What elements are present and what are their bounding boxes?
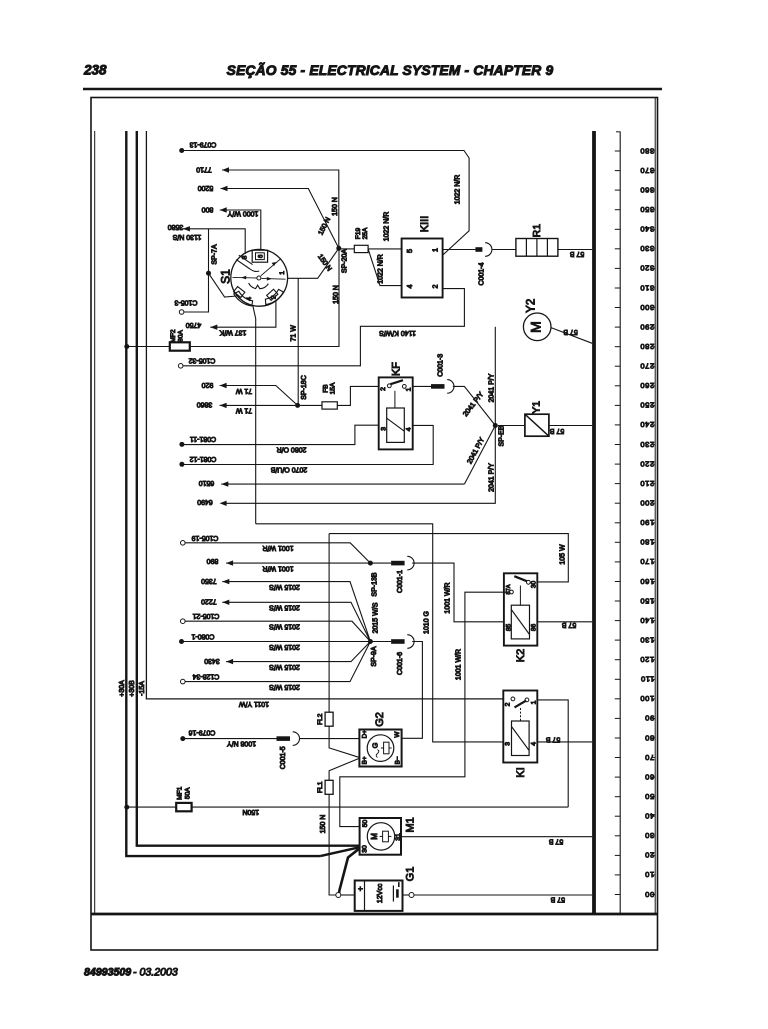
svg-text:1011 Y/W: 1011 Y/W [239, 700, 269, 707]
svg-text:3580: 3580 [168, 223, 184, 230]
fuse F19 25A [341, 248, 354, 250]
wire F19 to KIII pin 4 (1022 N/R) [368, 249, 402, 286]
connector C079-16 node [180, 736, 185, 741]
connector C081-11 node [179, 442, 184, 447]
svg-text:1001 W/R: 1001 W/R [262, 565, 293, 572]
svg-text:SP-9A: SP-9A [371, 646, 378, 667]
svg-text:2015 W/S: 2015 W/S [269, 683, 300, 690]
svg-text:C081-12: C081-12 [189, 455, 216, 462]
wire KIII pin 1 to C001-4 [443, 249, 476, 251]
svg-text:1008 N/Y: 1008 N/Y [227, 740, 257, 747]
starter motor M1 [360, 818, 403, 855]
svg-text:Y2: Y2 [525, 299, 537, 313]
svg-text:105 W: 105 W [560, 544, 567, 565]
svg-text:230: 230 [640, 440, 654, 449]
svg-text:100: 100 [640, 694, 654, 703]
battery − terminal [403, 894, 410, 896]
svg-text:86: 86 [531, 624, 538, 632]
svg-text:150: 150 [640, 596, 654, 605]
svg-text:- 03.2003: - 03.2003 [133, 967, 178, 979]
connector C105-21 [181, 619, 186, 624]
svg-text:920: 920 [202, 381, 214, 388]
svg-text:C128-34: C128-34 [192, 673, 219, 680]
fuse MF1 50A [176, 803, 191, 811]
svg-text:57 B: 57 B [545, 735, 560, 742]
wire S1 terminal 1 to SP-20A (150 N) [288, 248, 339, 278]
splice SP-20A [336, 246, 341, 251]
svg-text:220: 220 [640, 459, 654, 468]
wire K2 pin 87A to M1 pin 50 (1001 W/R) [340, 592, 511, 826]
svg-text:-15A: -15A [139, 681, 146, 696]
wire Y1 to ground bus (57 B) [549, 425, 592, 427]
svg-text:40: 40 [645, 812, 655, 821]
connector C001-1 [391, 561, 405, 566]
svg-text:FB: FB [322, 384, 329, 393]
wire KI pin 4 to ground bus (57 B) [537, 741, 592, 743]
wire SP-EB diagonal to 6510 line (2041 P/Y) [464, 426, 495, 485]
svg-text:G: G [370, 742, 379, 748]
svg-text:71 W: 71 W [235, 407, 252, 414]
svg-text:3860: 3860 [197, 401, 213, 408]
svg-text:80A: 80A [178, 330, 185, 342]
svg-text:50A: 50A [185, 787, 192, 799]
svg-text:G1: G1 [404, 867, 416, 882]
svg-text:2015 W/S: 2015 W/S [269, 643, 300, 650]
svg-text:KF: KF [390, 362, 402, 376]
wire SP-EB to Y1 [498, 425, 525, 427]
wire C105-19 to SP-13B (1001 W/R) [185, 543, 370, 563]
wire C079-16 to C001-5 (1008 N/Y) [183, 738, 277, 740]
svg-text:2: 2 [270, 295, 277, 299]
svg-text:2015 W/S: 2015 W/S [269, 604, 300, 611]
svg-text:6: 6 [257, 254, 264, 258]
svg-text:1001 W/R: 1001 W/R [445, 582, 452, 613]
connector C001-6 [391, 639, 405, 644]
svg-text:2080 O/R: 2080 O/R [277, 446, 307, 453]
wire 3580 to S1 terminal 3 [183, 229, 245, 254]
bus -15A wire 1011 Y/W to KI pin 2 [146, 131, 503, 699]
svg-text:C001-1: C001-1 [397, 570, 404, 593]
svg-text:57 B: 57 B [549, 427, 564, 434]
svg-text:240: 240 [640, 420, 654, 429]
left margin line [94, 131, 96, 914]
wire 137 W/K / 1010 G from S1 terminal 4 to KI pin 3 [256, 524, 504, 742]
svg-text:330: 330 [640, 244, 654, 253]
svg-text:2070 O/U/B: 2070 O/U/B [270, 466, 307, 473]
svg-text:2041 P/Y: 2041 P/Y [489, 373, 496, 402]
wire SP-7A to C105-3 [184, 273, 209, 312]
battery + terminal [336, 893, 341, 898]
svg-text:1001 W/R: 1001 W/R [456, 649, 463, 680]
svg-text:1: 1 [530, 700, 537, 704]
svg-text:57 B: 57 B [550, 896, 565, 903]
svg-text:C105-3: C105-3 [174, 298, 197, 305]
wire FL1 to battery + (150 N) [329, 794, 336, 895]
svg-text:3: 3 [241, 255, 248, 259]
svg-text:110: 110 [640, 675, 654, 684]
svg-text:120: 120 [640, 655, 654, 664]
svg-text:B+: B+ [362, 756, 369, 764]
svg-text:W: W [394, 731, 401, 738]
header rule [83, 88, 662, 91]
svg-text:1001 W/R: 1001 W/R [262, 544, 293, 551]
svg-text:C081-11: C081-11 [190, 435, 216, 442]
terminal number column inner line [654, 98, 656, 914]
splice SP-7A [208, 229, 210, 273]
wire 2080 O/R to KF pin 3 [182, 425, 379, 444]
wire SP-EB down to 6490 line (2041 P/Y) [221, 426, 495, 504]
svg-text:71 W: 71 W [291, 325, 298, 342]
wire SP-9A to C001-6 [373, 641, 392, 643]
wire 7350 to SP-9A (2015 W/S) [222, 582, 370, 642]
svg-text:C001-4: C001-4 [479, 262, 486, 285]
svg-text:7710: 7710 [196, 166, 212, 173]
connector C105-3 [179, 310, 184, 315]
svg-text:15A: 15A [330, 382, 337, 394]
wire C128-34 to SP-9A (2015 W/S) [185, 642, 370, 682]
connector C001-5 [277, 736, 291, 741]
svg-text:2015 W/S: 2015 W/S [372, 602, 379, 633]
svg-text:57 B: 57 B [569, 250, 584, 257]
svg-text:SP-13B: SP-13B [371, 572, 378, 596]
svg-text:SP-20A: SP-20A [341, 249, 348, 273]
svg-text:4: 4 [246, 297, 253, 301]
wire FL2 to G2 B+ [329, 726, 358, 757]
connector C105-19 [181, 541, 186, 546]
wire SP-13B to C001-1 [373, 562, 392, 564]
svg-text:−: − [394, 882, 403, 887]
wire C079-13 to KIII pin 1 (1022 N/R) [182, 151, 469, 256]
svg-text:4750: 4750 [186, 321, 202, 328]
wire 890 to SP-13B (1001 W/R) [226, 562, 370, 564]
svg-text:S1: S1 [219, 269, 233, 284]
svg-text:57 B: 57 B [561, 621, 576, 628]
svg-text:B−: B− [394, 756, 401, 764]
svg-text:150 N: 150 N [320, 815, 327, 834]
node on +30A bus for MF1 [124, 805, 129, 810]
svg-text:1130 N/S: 1130 N/S [172, 233, 201, 240]
svg-text:+: + [355, 886, 365, 891]
svg-text:320: 320 [640, 264, 654, 273]
svg-text:6510: 6510 [199, 479, 215, 486]
svg-text:G2: G2 [374, 712, 386, 727]
svg-text:380: 380 [640, 146, 654, 155]
svg-text:270: 270 [640, 362, 654, 371]
svg-text:C105-21: C105-21 [192, 612, 219, 619]
wire C001-1 to K2 pin 85 (1001 W/R) [412, 563, 504, 622]
wire R1 to ground bus (57 B) [558, 249, 592, 251]
svg-text:5: 5 [405, 249, 414, 253]
svg-text:10: 10 [645, 870, 655, 879]
connector C001-3 [431, 384, 445, 389]
wire 2070 O/U/B to KF pin 4 [182, 425, 433, 464]
svg-text:SP-EB: SP-EB [498, 425, 505, 446]
wire 800 to S1 terminal 6 (1000 W/Y) [220, 210, 261, 251]
relay KF [379, 377, 413, 449]
svg-text:30: 30 [362, 845, 369, 853]
svg-text:238: 238 [83, 63, 107, 78]
svg-text:M: M [528, 321, 544, 333]
svg-text:7220: 7220 [201, 598, 217, 605]
svg-text:3430: 3430 [204, 657, 220, 664]
svg-text:170: 170 [640, 557, 654, 566]
svg-text:7350: 7350 [201, 577, 217, 584]
svg-text:M1: M1 [404, 817, 416, 832]
svg-text:C105-32: C105-32 [188, 357, 215, 364]
svg-text:87A: 87A [506, 584, 512, 594]
svg-text:140: 140 [640, 616, 654, 625]
splice SP-13B [368, 561, 373, 566]
svg-text:370: 370 [640, 166, 654, 175]
wire S1 terminal 1 branch 71 W down to SP-18C [297, 278, 299, 405]
svg-text:300: 300 [640, 303, 654, 312]
svg-text:250: 250 [640, 401, 654, 410]
svg-text:137 W/K: 137 W/K [219, 329, 246, 336]
valve Y1 [525, 414, 549, 436]
relay KI [503, 691, 537, 763]
svg-text:340: 340 [640, 225, 654, 234]
svg-text:M: M [370, 833, 379, 840]
wire 3860 to SP-18C [220, 404, 298, 406]
svg-text:57 B: 57 B [563, 328, 578, 335]
svg-text:260: 260 [640, 381, 654, 390]
svg-text:85: 85 [506, 624, 513, 632]
wire G2 B+ to FL1 [329, 759, 358, 781]
svg-text:SP-18C: SP-18C [301, 375, 308, 400]
wire FB to KF pin 2 [337, 386, 378, 405]
svg-text:Y1: Y1 [531, 401, 543, 414]
motor Y2 [523, 313, 551, 341]
splice SP-18C [295, 403, 300, 408]
svg-text:57 B: 57 B [548, 838, 563, 845]
svg-text:MF2: MF2 [170, 329, 177, 343]
wire S1 terminal 4 down (to 1010 G) [253, 306, 256, 524]
svg-text:C080-1: C080-1 [191, 633, 214, 640]
wire C080-1 to SP-9A (2015 W/S) [182, 641, 371, 643]
wire 7220 to SP-9A (2015 W/S) [222, 602, 370, 641]
connector C105-32 [178, 364, 183, 369]
svg-text:C079-16: C079-16 [188, 728, 215, 735]
svg-text:1: 1 [279, 271, 286, 275]
wire battery feed to K2 pin 30 (105 W) [329, 534, 568, 582]
svg-text:130: 130 [640, 635, 654, 644]
relay K2 [504, 573, 538, 645]
svg-text:4: 4 [405, 285, 414, 289]
wire 3430 to SP-9A (2015 W/S) [226, 642, 370, 662]
wire 920 to SP-18C [220, 386, 298, 406]
svg-text:00: 00 [645, 890, 655, 899]
svg-text:190: 190 [640, 518, 654, 527]
svg-text:C105-19: C105-19 [191, 534, 218, 541]
relay KIII [402, 239, 443, 298]
splice SP-9A [368, 639, 373, 644]
svg-text:2015 W/S: 2015 W/S [269, 583, 300, 590]
connector C128-34 [181, 679, 186, 684]
svg-text:200: 200 [640, 499, 654, 508]
svg-text:1000 W/Y: 1000 W/Y [227, 210, 258, 217]
wire C001-4 to R1 [493, 249, 516, 251]
svg-text:1022 N/R: 1022 N/R [454, 175, 461, 205]
wire Y2 to ground bus (57 B) [551, 328, 592, 344]
wire C105-32 to KIII pin 2 (1140 K/W/S) [183, 289, 464, 366]
svg-text:SEÇÃO 55 - ELECTRICAL SYSTEM -: SEÇÃO 55 - ELECTRICAL SYSTEM - CHAPTER 9 [227, 61, 554, 78]
alternator G2 [359, 730, 401, 767]
svg-text:1010 G: 1010 G [424, 611, 431, 634]
svg-text:1022 N/R: 1022 N/R [384, 212, 391, 242]
svg-text:2: 2 [380, 387, 387, 391]
svg-text:50: 50 [362, 820, 369, 828]
svg-text:2: 2 [505, 702, 512, 706]
svg-text:C001-5: C001-5 [280, 746, 287, 769]
svg-text:FL1: FL1 [317, 781, 324, 793]
svg-text:1: 1 [405, 387, 412, 391]
svg-text:20: 20 [645, 851, 655, 860]
svg-text:25A: 25A [362, 227, 369, 239]
svg-text:4: 4 [406, 427, 413, 431]
terminal ruler line [619, 132, 621, 914]
svg-text:2015 W/S: 2015 W/S [269, 663, 300, 670]
wire battery − to ground bus (57 B) [414, 894, 592, 896]
svg-text:F19: F19 [355, 227, 362, 239]
svg-text:30: 30 [645, 831, 655, 840]
svg-text:C001-3: C001-3 [437, 354, 444, 377]
svg-text:C079-13: C079-13 [189, 141, 216, 148]
svg-text:+30B: +30B [129, 680, 136, 697]
wire M1 pin 31 to ground bus (57 B) [401, 836, 592, 838]
svg-text:50: 50 [645, 792, 655, 801]
bus +30A [126, 131, 320, 856]
svg-text:210: 210 [640, 479, 654, 488]
node on +30A bus for MF2 [124, 344, 129, 349]
svg-text:KIII: KIII [419, 216, 431, 233]
heavy cable M1 pin 30 to battery + [339, 848, 359, 892]
wire +30A to SP-20A via MF2 [127, 346, 170, 348]
svg-text:R1: R1 [531, 224, 543, 238]
svg-text:3: 3 [380, 427, 387, 431]
svg-text:2: 2 [430, 285, 439, 289]
svg-text:350: 350 [640, 205, 654, 214]
splice SP-EB [493, 423, 498, 428]
wire F19 to KIII pin 5 (1022 N/R) [368, 248, 402, 250]
svg-text:FL2: FL2 [317, 713, 324, 725]
svg-text:12Vcc: 12Vcc [377, 883, 384, 903]
wire K2 pin 86 to ground bus (57 B) [537, 621, 592, 623]
bus +30B [137, 131, 359, 846]
svg-text:+30A: +30A [119, 680, 126, 697]
svg-text:1140 K/W/S: 1140 K/W/S [379, 329, 416, 336]
connector C081-12 node [179, 462, 184, 467]
svg-text:5200: 5200 [198, 184, 214, 191]
wire 5200 diagonal to SP-20A (150 N) [221, 189, 339, 249]
wire 7710 to SP-20A (150 N) [222, 170, 339, 246]
wire C001-5 to G2 terminal D+ [300, 738, 360, 740]
fuse FL1 [325, 780, 333, 794]
svg-text:C001-6: C001-6 [397, 652, 404, 675]
svg-text:2015 W/S: 2015 W/S [269, 623, 300, 630]
svg-text:2041 P/Y: 2041 P/Y [489, 463, 496, 492]
svg-text:84993509: 84993509 [84, 967, 131, 979]
connector C001-4 [475, 247, 482, 252]
wire C105-21 to SP-9A (2015 W/S) [185, 621, 370, 641]
svg-text:SP-7A: SP-7A [211, 244, 218, 265]
svg-text:1022 N/R: 1022 N/R [377, 254, 384, 284]
svg-text:890: 890 [207, 557, 219, 564]
svg-text:290: 290 [640, 322, 654, 331]
connector C080-1 node [179, 639, 184, 644]
svg-text:150 N: 150 N [333, 285, 340, 304]
svg-text:4: 4 [530, 742, 537, 746]
fuse FL2 [328, 534, 330, 713]
svg-text:360: 360 [640, 185, 654, 194]
svg-text:KI: KI [515, 767, 527, 777]
ignition switch S1 [231, 249, 288, 306]
wire C001-3 to SP-EB (2041 P/Y) [453, 386, 496, 425]
wire KF pin 1 to C001-3 [413, 385, 431, 387]
svg-text:1: 1 [430, 248, 439, 252]
svg-text:150N: 150N [242, 808, 259, 815]
battery G1 12Vcc [355, 881, 404, 911]
wire KI pin 1 to MF1 line [537, 700, 568, 807]
svg-text:71 W: 71 W [235, 387, 252, 394]
svg-text:K2: K2 [515, 649, 527, 662]
svg-text:80: 80 [645, 733, 655, 742]
svg-text:160: 160 [640, 577, 654, 586]
ruler tick marks [615, 150, 620, 152]
wire 6510 [221, 483, 464, 485]
wire S1 terminal 2 to off-page 4750 [210, 301, 276, 328]
svg-text:180: 180 [640, 538, 654, 547]
svg-text:D+: D+ [362, 730, 369, 739]
schematic border frame [91, 98, 658, 951]
ground bus bar (thick vertical) [592, 131, 596, 914]
connector C079-13 node [179, 148, 184, 153]
svg-text:30: 30 [531, 581, 538, 589]
svg-text:MF1: MF1 [177, 786, 184, 800]
svg-text:6490: 6490 [197, 498, 213, 505]
fuse MF2 80A [170, 342, 190, 350]
svg-text:150 N: 150 N [332, 197, 339, 216]
wire SP-7A to S1 rim [209, 273, 237, 297]
wire +30A via MF1 to KI pin 1 (150N) [127, 806, 176, 808]
resistor R1 [516, 239, 558, 257]
thick schematic bottom rail [92, 913, 658, 916]
svg-text:800: 800 [202, 206, 214, 213]
svg-text:3: 3 [505, 742, 512, 746]
svg-text:310: 310 [640, 283, 654, 292]
svg-text:70: 70 [645, 753, 655, 762]
svg-text:280: 280 [640, 342, 654, 351]
svg-text:60: 60 [645, 772, 655, 781]
svg-text:90: 90 [645, 714, 655, 723]
fuse FB 15A [300, 404, 322, 406]
wire SP-EB riser to Y2 feed [494, 327, 496, 426]
wire C001-6 to G2 terminal W [402, 642, 423, 739]
